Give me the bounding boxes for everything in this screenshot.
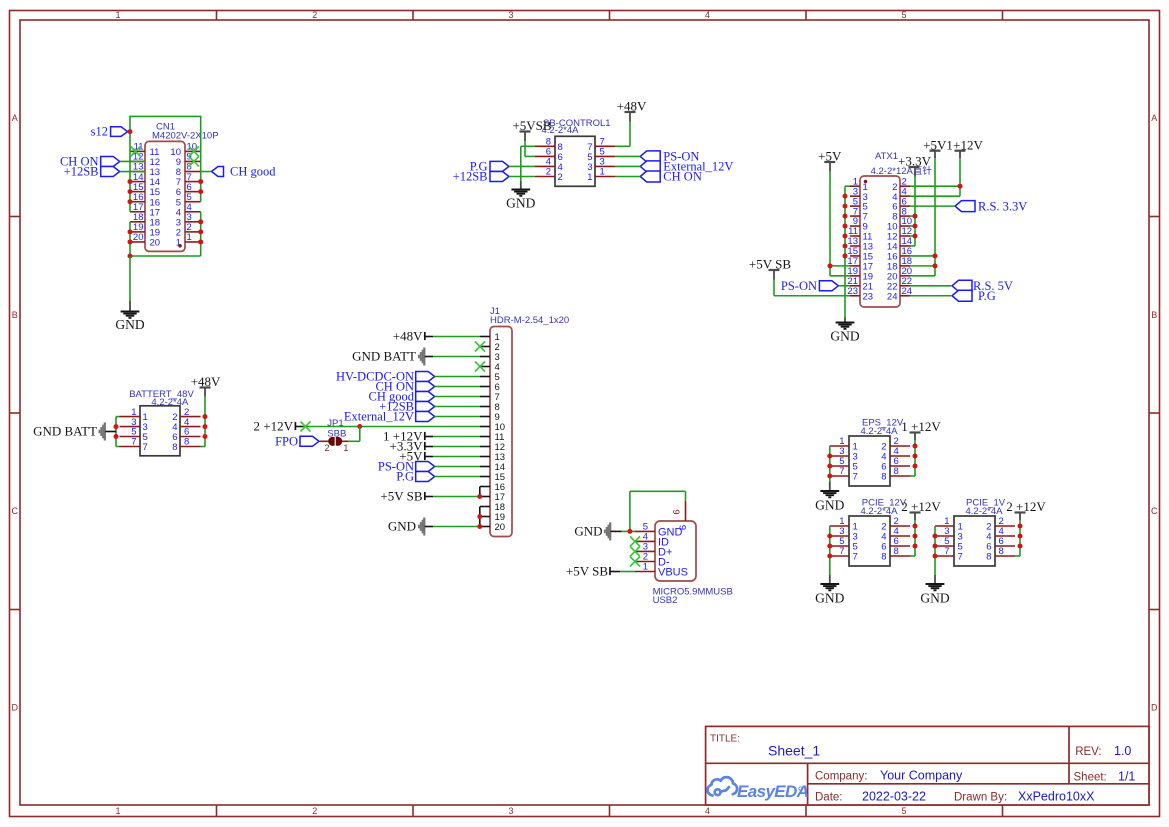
no-connect X J1 pin 2: [475, 342, 485, 352]
junction PCIE_1V pin 2: [1018, 524, 1023, 529]
junction EPS_12V pin 3: [827, 454, 832, 459]
flag CH good: [212, 167, 224, 177]
svg-text:7: 7: [143, 442, 148, 453]
junction PCIE_12V pin 6: [913, 544, 918, 549]
junction EPS_12V pin 5: [827, 464, 832, 469]
svg-text:8: 8: [172, 442, 177, 453]
jumper JP1 solder bridge pads: [328, 437, 337, 446]
junction BATTERT pin 4: [203, 424, 208, 429]
SB-CONTROL1 right pins 7 5 3 1: [587, 137, 615, 184]
border column ticks: [217, 11, 1003, 817]
junction PCIE_1V pin 7: [933, 554, 938, 559]
flag PS-ON at J1 pin 14: [416, 462, 435, 472]
svg-text:5: 5: [901, 806, 906, 816]
junction CN1 pin 3: [198, 219, 203, 224]
no-connect X USB2 pin 4: [630, 536, 640, 546]
wire P.G to pin 15: [435, 476, 480, 478]
junction BATTERT pin 6: [203, 434, 208, 439]
wire PCIE_12V right power bus: [914, 520, 916, 556]
ATX1 right pins even 2-24: [887, 176, 912, 302]
junction PCIE_1V pin 5: [933, 544, 938, 549]
svg-text:GND: GND: [574, 524, 602, 539]
border column numbers: [115, 10, 906, 816]
junction PCIE_1V pin 6: [1018, 544, 1023, 549]
wire CH good to pin 7: [435, 396, 480, 398]
junction ATX1 pin 7: [843, 214, 848, 219]
svg-text:4: 4: [705, 806, 710, 816]
svg-text:+5V SB: +5V SB: [380, 489, 422, 504]
junction CN1 pin 19: [128, 229, 133, 234]
junction PCIE_12V pin 7: [827, 554, 832, 559]
wire GND to pin 20: [433, 526, 480, 528]
EPS_12V left pins 1 3 5 7: [830, 436, 858, 482]
wire pin 6 to R.S. 3.3V: [910, 205, 955, 207]
svg-text:B: B: [12, 310, 18, 320]
wire External_12V to pin 9: [435, 416, 480, 418]
svg-text:+5V SB: +5V SB: [566, 564, 608, 579]
svg-text:EasyEDA: EasyEDA: [737, 782, 809, 801]
wire P.G to pin 4: [509, 165, 535, 167]
wire USB2 pin 6 to GND: [685, 491, 687, 501]
junction CN1 pin 20: [128, 239, 133, 244]
svg-text:20: 20: [495, 522, 506, 533]
flag FPO: [300, 436, 319, 446]
svg-text:3: 3: [508, 806, 513, 816]
svg-text:23: 23: [863, 291, 874, 302]
ground GND of SB-CONTROL1: [511, 189, 530, 191]
svg-text:1.0: 1.0: [1114, 744, 1131, 758]
svg-text:8: 8: [894, 466, 899, 477]
wire PCIE_12V left ground bus: [829, 526, 831, 575]
svg-text:7: 7: [853, 552, 858, 563]
title block row divider 2: [808, 783, 1149, 785]
connector USB2 body: [655, 521, 696, 581]
wire CH ON to pin 6: [435, 386, 480, 388]
flag CH ON of SB-CONTROL1: [640, 171, 660, 182]
svg-text:GND: GND: [830, 329, 859, 344]
svg-text:+48V: +48V: [393, 329, 423, 344]
PCIE_12V left pins 1 3 5 7: [830, 516, 858, 562]
svg-text:8: 8: [999, 546, 1004, 557]
USB2 pin 6 shield: [685, 501, 687, 521]
wire +5V SB to pin 23: [773, 280, 775, 296]
wire +5VSB to pin 6: [524, 141, 526, 156]
svg-text:1/1: 1/1: [1118, 770, 1135, 784]
svg-text:1: 1: [176, 238, 181, 249]
flag +12SB of SB-CONTROL1: [490, 172, 509, 182]
svg-text:Sheet_1: Sheet_1: [768, 743, 820, 759]
junction CN1 pin 15: [128, 189, 133, 194]
connector CN1 left pins 11-20: [130, 142, 160, 249]
no-connect X J1 pin 4: [475, 362, 485, 372]
wire +12V to pins 2 4: [959, 158, 961, 196]
junction ATX1 pin 13: [843, 243, 848, 248]
junction jumper tap on pin 10 wire: [357, 424, 362, 429]
PCIE_1V left pins 1 3 5 7: [935, 516, 963, 562]
svg-text:7: 7: [944, 546, 949, 557]
svg-text:XxPedro10xX: XxPedro10xX: [1018, 790, 1095, 804]
PCIE_12V right pins 2 4 6 8: [881, 516, 910, 562]
wire CN1 left bus lower: [129, 222, 131, 256]
flag +12SB: [101, 167, 120, 177]
wire FPO to jumper pin 2: [320, 440, 330, 442]
wire +5V SB to pin 1: [620, 571, 635, 573]
svg-text:P.G: P.G: [396, 470, 414, 484]
connector EPS_12V body: [849, 436, 890, 486]
connector J1 body: [490, 327, 512, 537]
svg-text:2 +12V: 2 +12V: [1006, 499, 1046, 514]
wire +5V SB to pin 17: [433, 496, 480, 498]
wire pin 8 to ground: [521, 145, 535, 147]
junction ATX1 pin 11: [843, 234, 848, 239]
wire 1 +12V to pin 11: [433, 436, 480, 438]
BATTERT_48V left pins 1 3 5 7: [120, 407, 148, 453]
flag HV-DCDC-ON at J1 pin 5: [416, 372, 435, 382]
svg-text:A: A: [1151, 113, 1157, 123]
wire CN1 right bus upper: [200, 116, 202, 202]
svg-text:REV:: REV:: [1075, 746, 1101, 758]
svg-text:Sheet:: Sheet:: [1074, 772, 1107, 784]
junction ATX1 pin 9: [843, 224, 848, 229]
no-connect X USB2 pin 2: [630, 557, 640, 567]
svg-text:5: 5: [901, 10, 906, 20]
wire CH ON to pin 12: [120, 160, 145, 162]
wire +48V to pin 1: [433, 336, 480, 338]
junction CN1 pin 2: [198, 229, 203, 234]
svg-text:20: 20: [150, 238, 161, 249]
connector PCIE_1V body: [954, 516, 995, 566]
svg-text:s12: s12: [91, 125, 108, 139]
svg-text:Your Company: Your Company: [880, 769, 963, 783]
svg-text:7: 7: [839, 546, 844, 557]
wire pin 24 to P.G: [910, 295, 952, 297]
junction PCIE_1V pin 4: [1018, 534, 1023, 539]
svg-text:7: 7: [839, 466, 844, 477]
wire J1 pin 16 to pin 17: [479, 487, 481, 497]
ground GND of CN1: [121, 311, 140, 313]
junction CN1 pin 6: [198, 189, 203, 194]
border row letters: [12, 113, 1159, 712]
svg-text:2: 2: [312, 10, 317, 20]
svg-text:7: 7: [131, 437, 136, 448]
ground GND of EPS_12V: [820, 490, 839, 492]
wire ATX1 left ground bus: [844, 186, 846, 317]
svg-text:GND: GND: [815, 590, 844, 605]
wire pin 8 to CH good: [201, 171, 212, 173]
flag CH ON: [101, 156, 120, 166]
flag CH ON at J1 pin 6: [416, 382, 435, 392]
svg-text:8: 8: [881, 552, 886, 563]
flag R.S. 3.3V: [955, 201, 975, 212]
svg-text:VBUS: VBUS: [658, 567, 688, 579]
ground GND of ATX1: [836, 322, 855, 324]
junction ATX1 pin 5: [843, 204, 848, 209]
junction +5V1 pin 16: [933, 253, 938, 258]
connector SB-CONTROL1 body: [555, 136, 595, 186]
wire EPS_12V right power bus: [914, 440, 916, 476]
junction CN1 pin 7: [198, 179, 203, 184]
svg-text:R.S. 3.3V: R.S. 3.3V: [978, 199, 1027, 213]
wire +5V to pin 13: [433, 456, 480, 458]
svg-text:P.G: P.G: [978, 289, 996, 303]
wire J1 pin 18 to pin 20: [479, 507, 481, 527]
flag P.G of ATX1: [952, 290, 972, 301]
connector ATX1 body: [860, 176, 900, 307]
svg-text:+12SB: +12SB: [453, 170, 488, 184]
ground flag GND BATT at J1 pin 3: [418, 348, 425, 366]
ground flag GND at J1 pin 20: [418, 518, 425, 536]
junction CN1 bottom: [128, 254, 133, 259]
svg-text:+5VSB: +5VSB: [512, 118, 551, 133]
wire +5V1 to pins 16 18 20: [934, 158, 936, 276]
no-connect X USB2 pin 3: [630, 546, 640, 556]
flag External_12V of SB-CONTROL1: [640, 161, 660, 172]
junction EPS_12V pin 4: [913, 454, 918, 459]
svg-text:1: 1: [187, 232, 192, 243]
connector BATTERT_48V body: [140, 406, 180, 456]
wire PCIE_1V left ground bus: [934, 526, 936, 575]
BATTERT_48V right pins 2 4 6 8: [172, 407, 200, 453]
wire s12 to CN1 bus: [128, 131, 131, 133]
svg-text:HDR-M-2.54_1x20: HDR-M-2.54_1x20: [490, 315, 569, 326]
wire +12SB to pin 13: [120, 171, 145, 173]
svg-text:6: 6: [678, 525, 689, 530]
svg-text:GND BATT: GND BATT: [33, 424, 97, 439]
ground flag GND BATT: [99, 423, 106, 441]
connector ATX1 pin1 marker dot: [864, 180, 868, 184]
junction s12: [128, 129, 133, 134]
wire +3.3V to pins 8 10 12 14: [914, 177, 916, 246]
svg-text:A: A: [12, 113, 18, 123]
flag R.S. 5V: [952, 280, 972, 291]
svg-text:2 +12V: 2 +12V: [254, 419, 294, 434]
flag s12: [111, 127, 128, 137]
svg-text:TITLE:: TITLE:: [710, 734, 740, 745]
junction ATX1 pin 15: [843, 253, 848, 258]
flag +12SB at J1 pin 8: [416, 402, 435, 412]
svg-text:2: 2: [324, 443, 329, 453]
junction PCIE_1V pin 3: [933, 534, 938, 539]
svg-text:7: 7: [853, 472, 858, 483]
wire +48V to pin 7: [629, 122, 631, 147]
no-connect X pin 9: [189, 156, 199, 166]
junction CN1 pin 16: [128, 199, 133, 204]
junction PCIE_12V pin 2: [913, 524, 918, 529]
junction BATTERT pin 3: [114, 424, 119, 429]
J1 pins 1-20: [480, 332, 505, 533]
title block column divider logo: [807, 763, 809, 805]
svg-text:USB2: USB2: [653, 595, 678, 606]
connector CN1 right pins 10-1: [170, 142, 200, 249]
svg-text:2022-03-22: 2022-03-22: [862, 790, 926, 804]
svg-text:2: 2: [312, 806, 317, 816]
wire PS-ON to pin 14: [435, 466, 480, 468]
no-connect X pin 11: [131, 146, 141, 156]
connector CN1 pin1 marker dot: [178, 244, 182, 248]
junction J1 pin 19: [477, 514, 482, 519]
svg-text:GND: GND: [815, 497, 844, 512]
svg-text:D: D: [12, 703, 19, 713]
svg-text:PS-ON: PS-ON: [781, 279, 817, 293]
wire CN1 right bus lower: [200, 212, 202, 256]
connector PCIE_12V body: [849, 516, 890, 566]
svg-text:1: 1: [343, 443, 348, 453]
svg-text:GND: GND: [388, 519, 416, 534]
ATX1 left pins odd 1-23: [847, 176, 873, 302]
svg-text:8: 8: [894, 546, 899, 557]
svg-text:C: C: [12, 506, 19, 516]
wire CN1 to ground: [129, 256, 131, 301]
wire +12SB to pin 8: [435, 406, 480, 408]
svg-text:1: 1: [600, 167, 605, 178]
junction +5V1 pin 18: [933, 263, 938, 268]
PCIE_1V right pins 2 4 6 8: [986, 516, 1015, 562]
junction CN1 pin 1: [198, 239, 203, 244]
svg-text:1: 1: [115, 10, 120, 20]
junction +3.3V pin 10: [913, 224, 918, 229]
svg-text:1: 1: [115, 806, 120, 816]
wire +12SB to pin 2: [509, 176, 535, 178]
wire BATTERT left bus: [115, 417, 117, 447]
wire CN1 left bus upper: [129, 116, 131, 212]
wire pin 3 to External_12V: [615, 165, 640, 167]
wire CN1 top bus: [130, 115, 201, 117]
svg-text:2: 2: [558, 172, 563, 183]
flag PS-ON of ATX1: [819, 281, 838, 291]
USB2 pins 5-1: [635, 521, 688, 578]
wire PS-ON to pin 21: [839, 285, 851, 287]
junction EPS_12V pin 7: [827, 474, 832, 479]
svg-text:D: D: [1151, 703, 1158, 713]
junction EPS_12V pin 2: [913, 444, 918, 449]
svg-text:8: 8: [881, 472, 886, 483]
svg-text:FPO: FPO: [275, 435, 298, 449]
svg-text:24: 24: [887, 291, 898, 302]
wire jumper pin 1 to pin 10 wire: [342, 440, 348, 442]
EPS_12V right pins 2 4 6 8: [881, 436, 910, 482]
svg-text:2: 2: [546, 167, 551, 178]
svg-text:1 +12V: 1 +12V: [901, 419, 941, 434]
wire +48V bus right: [204, 397, 206, 447]
title block outline: [706, 726, 1149, 805]
junction PCIE_12V pin 5: [827, 544, 832, 549]
svg-text:3: 3: [508, 10, 513, 20]
flag CH good at J1 pin 7: [416, 392, 435, 402]
svg-text:20: 20: [133, 232, 144, 243]
junction +3.3V pin 8: [913, 214, 918, 219]
svg-text:Company:: Company:: [815, 771, 867, 783]
svg-text:GND: GND: [115, 317, 144, 332]
wire GND to pin 5: [622, 530, 636, 532]
ground GND of PCIE_1V: [926, 583, 945, 585]
svg-text:Date:: Date:: [815, 792, 843, 804]
junction +12V pin 2: [958, 184, 963, 189]
svg-text:4: 4: [705, 10, 710, 20]
ground GND of PCIE_12V: [820, 583, 839, 585]
flag PS-ON of SB-CONTROL1: [640, 151, 660, 162]
no-connect X pin 10: [189, 146, 199, 156]
svg-text:8: 8: [986, 552, 991, 563]
svg-text:Drawn By:: Drawn By:: [954, 792, 1007, 804]
ground flag GND of USB2: [604, 522, 611, 540]
junction USB2 pin 5: [627, 529, 632, 534]
title block column divider rev: [1068, 726, 1070, 783]
svg-text:1: 1: [643, 562, 648, 573]
svg-text:External_12V: External_12V: [344, 410, 414, 424]
wire CN1 bottom bus: [130, 255, 201, 257]
border row ticks: [10, 217, 1160, 610]
flag External_12V at J1 pin 9: [416, 412, 435, 422]
svg-text:+12SB: +12SB: [64, 165, 99, 179]
svg-text:ATX1: ATX1: [875, 151, 898, 162]
svg-text:2 +12V: 2 +12V: [901, 499, 941, 514]
wire HV-DCDC-ON to pin 5: [435, 376, 480, 378]
wire 2 +12V to pin 10: [303, 426, 480, 428]
svg-text:7: 7: [958, 552, 963, 563]
svg-text:B: B: [1151, 310, 1157, 320]
svg-text:GND BATT: GND BATT: [352, 349, 416, 364]
SB-CONTROL1 left pins 8 6 4 2: [535, 137, 563, 184]
junction J1 pin 17: [477, 494, 482, 499]
wire pin 1 to CH ON: [615, 176, 640, 178]
svg-text:GND: GND: [920, 590, 949, 605]
junction +5V pin 17: [828, 263, 833, 268]
junction J1 pin 20: [477, 524, 482, 529]
svg-text:M4202V-2X10P: M4202V-2X10P: [152, 131, 219, 142]
junction EPS_12V pin 6: [913, 464, 918, 469]
svg-text:8: 8: [184, 437, 189, 448]
title block row divider 1: [706, 762, 1149, 764]
junction BATTERT pin 5: [114, 434, 119, 439]
wire +5V to pins 17 19: [829, 171, 831, 276]
EasyEDA logo cloud icon: [708, 777, 738, 795]
wire EPS_12V left ground bus: [829, 446, 831, 482]
svg-text:CH good: CH good: [230, 165, 276, 179]
flag P.G at J1 pin 15: [416, 472, 435, 482]
junction +3.3V pin 12: [913, 234, 918, 239]
wire pin 5 to PS-ON: [615, 155, 640, 157]
wire pin 22 to R.S. 5V: [910, 285, 952, 287]
wire GND BATT to pin 3: [433, 356, 480, 358]
connector CN1 body: [145, 141, 185, 251]
svg-text:GND: GND: [506, 195, 535, 210]
flag P.G: [490, 161, 509, 171]
junction ATX1 pin 3: [843, 194, 848, 199]
no-connect X on 2 +12V wire: [301, 422, 311, 432]
wire PCIE_1V right power bus: [1019, 520, 1021, 556]
svg-text:CH ON: CH ON: [663, 170, 702, 184]
wire +3.3V to pin 12: [433, 446, 480, 448]
svg-text:1: 1: [587, 172, 592, 183]
svg-text:C: C: [1151, 506, 1158, 516]
junction CN1 pin 14: [128, 179, 133, 184]
svg-text:JP1: JP1: [327, 418, 343, 429]
svg-text:6: 6: [672, 509, 683, 514]
junction BATTERT pin 2: [203, 414, 208, 419]
junction PCIE_12V pin 4: [913, 534, 918, 539]
junction PCIE_12V pin 3: [827, 534, 832, 539]
